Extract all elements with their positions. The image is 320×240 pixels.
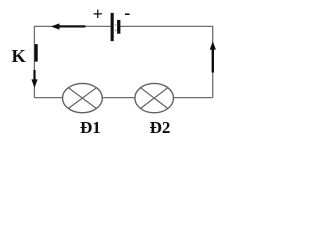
svg-text:+: + (93, 4, 103, 24)
svg-text:-: - (124, 2, 130, 22)
svg-text:K: K (12, 46, 27, 66)
svg-text:Đ2: Đ2 (150, 118, 171, 137)
svg-text:Đ1: Đ1 (80, 118, 101, 137)
